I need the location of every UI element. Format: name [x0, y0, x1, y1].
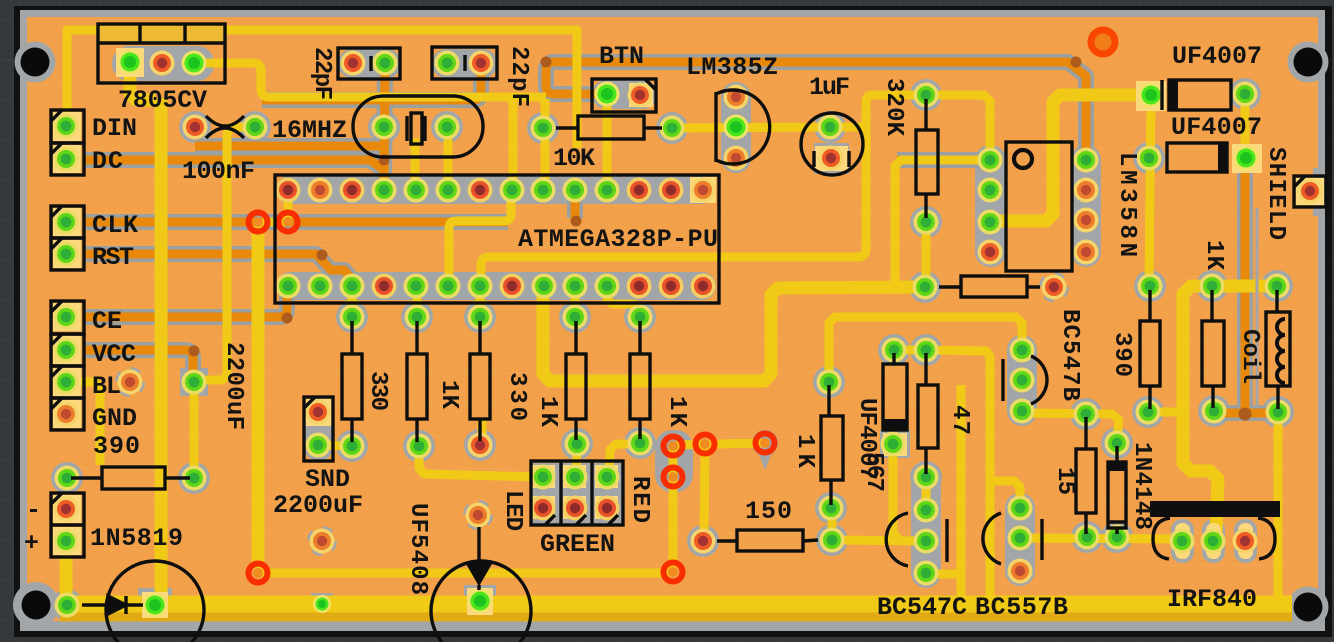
svg-text:RST: RST — [92, 243, 134, 272]
svg-text:390: 390 — [1108, 332, 1135, 377]
svg-text:Coil: Coil — [1236, 329, 1263, 384]
svg-text:VCC: VCC — [92, 340, 136, 369]
svg-text:SND: SND — [305, 465, 350, 494]
svg-text:1K: 1K — [663, 396, 690, 428]
svg-text:1N4148: 1N4148 — [1128, 442, 1155, 530]
svg-text:LED: LED — [499, 490, 526, 531]
svg-text:100nF: 100nF — [182, 157, 255, 186]
svg-text:-: - — [26, 496, 41, 525]
svg-text:1N5819: 1N5819 — [90, 524, 183, 553]
svg-text:GREEN: GREEN — [540, 530, 615, 559]
svg-text:1K: 1K — [1200, 240, 1227, 271]
svg-text:ATMEGA328P-PU: ATMEGA328P-PU — [518, 225, 718, 254]
svg-text:567: 567 — [860, 452, 887, 492]
svg-text:15: 15 — [1051, 467, 1078, 495]
svg-text:BC547C: BC547C — [877, 593, 967, 622]
svg-text:320K: 320K — [880, 78, 907, 137]
svg-text:CLK: CLK — [92, 211, 138, 240]
svg-text:IRF840: IRF840 — [1167, 585, 1257, 614]
svg-text:+: + — [24, 529, 39, 558]
svg-text:BC557B: BC557B — [975, 593, 1068, 622]
svg-text:10K: 10K — [553, 144, 595, 173]
svg-text:GND: GND — [92, 404, 137, 433]
svg-text:SHIELD: SHIELD — [1262, 147, 1289, 240]
svg-text:LM385Z: LM385Z — [686, 53, 778, 82]
svg-text:150: 150 — [745, 497, 792, 526]
svg-text:RED: RED — [626, 476, 653, 523]
svg-text:DIN: DIN — [92, 114, 137, 143]
svg-text:UF4007: UF4007 — [1172, 42, 1262, 71]
svg-text:BL: BL — [92, 372, 121, 401]
svg-text:22pF: 22pF — [308, 47, 335, 100]
svg-text:BC547B: BC547B — [1056, 309, 1083, 401]
svg-text:DC: DC — [92, 147, 123, 176]
svg-text:1K: 1K — [534, 396, 561, 428]
svg-text:2200uF: 2200uF — [220, 342, 247, 430]
svg-text:390: 390 — [93, 432, 140, 461]
svg-text:2200uF: 2200uF — [273, 491, 363, 520]
svg-text:1K: 1K — [435, 380, 462, 410]
svg-text:330: 330 — [503, 372, 530, 421]
svg-text:UF4007: UF4007 — [1171, 113, 1262, 142]
svg-text:CE: CE — [92, 307, 122, 336]
svg-text:16MHZ: 16MHZ — [272, 116, 347, 145]
svg-text:1uF: 1uF — [809, 73, 850, 102]
svg-text:7805CV: 7805CV — [118, 86, 207, 115]
svg-text:UF5408: UF5408 — [404, 503, 431, 595]
svg-text:BTN: BTN — [599, 42, 644, 71]
svg-text:330: 330 — [364, 371, 391, 411]
svg-text:47: 47 — [946, 405, 973, 435]
svg-text:22pF: 22pF — [505, 46, 532, 107]
